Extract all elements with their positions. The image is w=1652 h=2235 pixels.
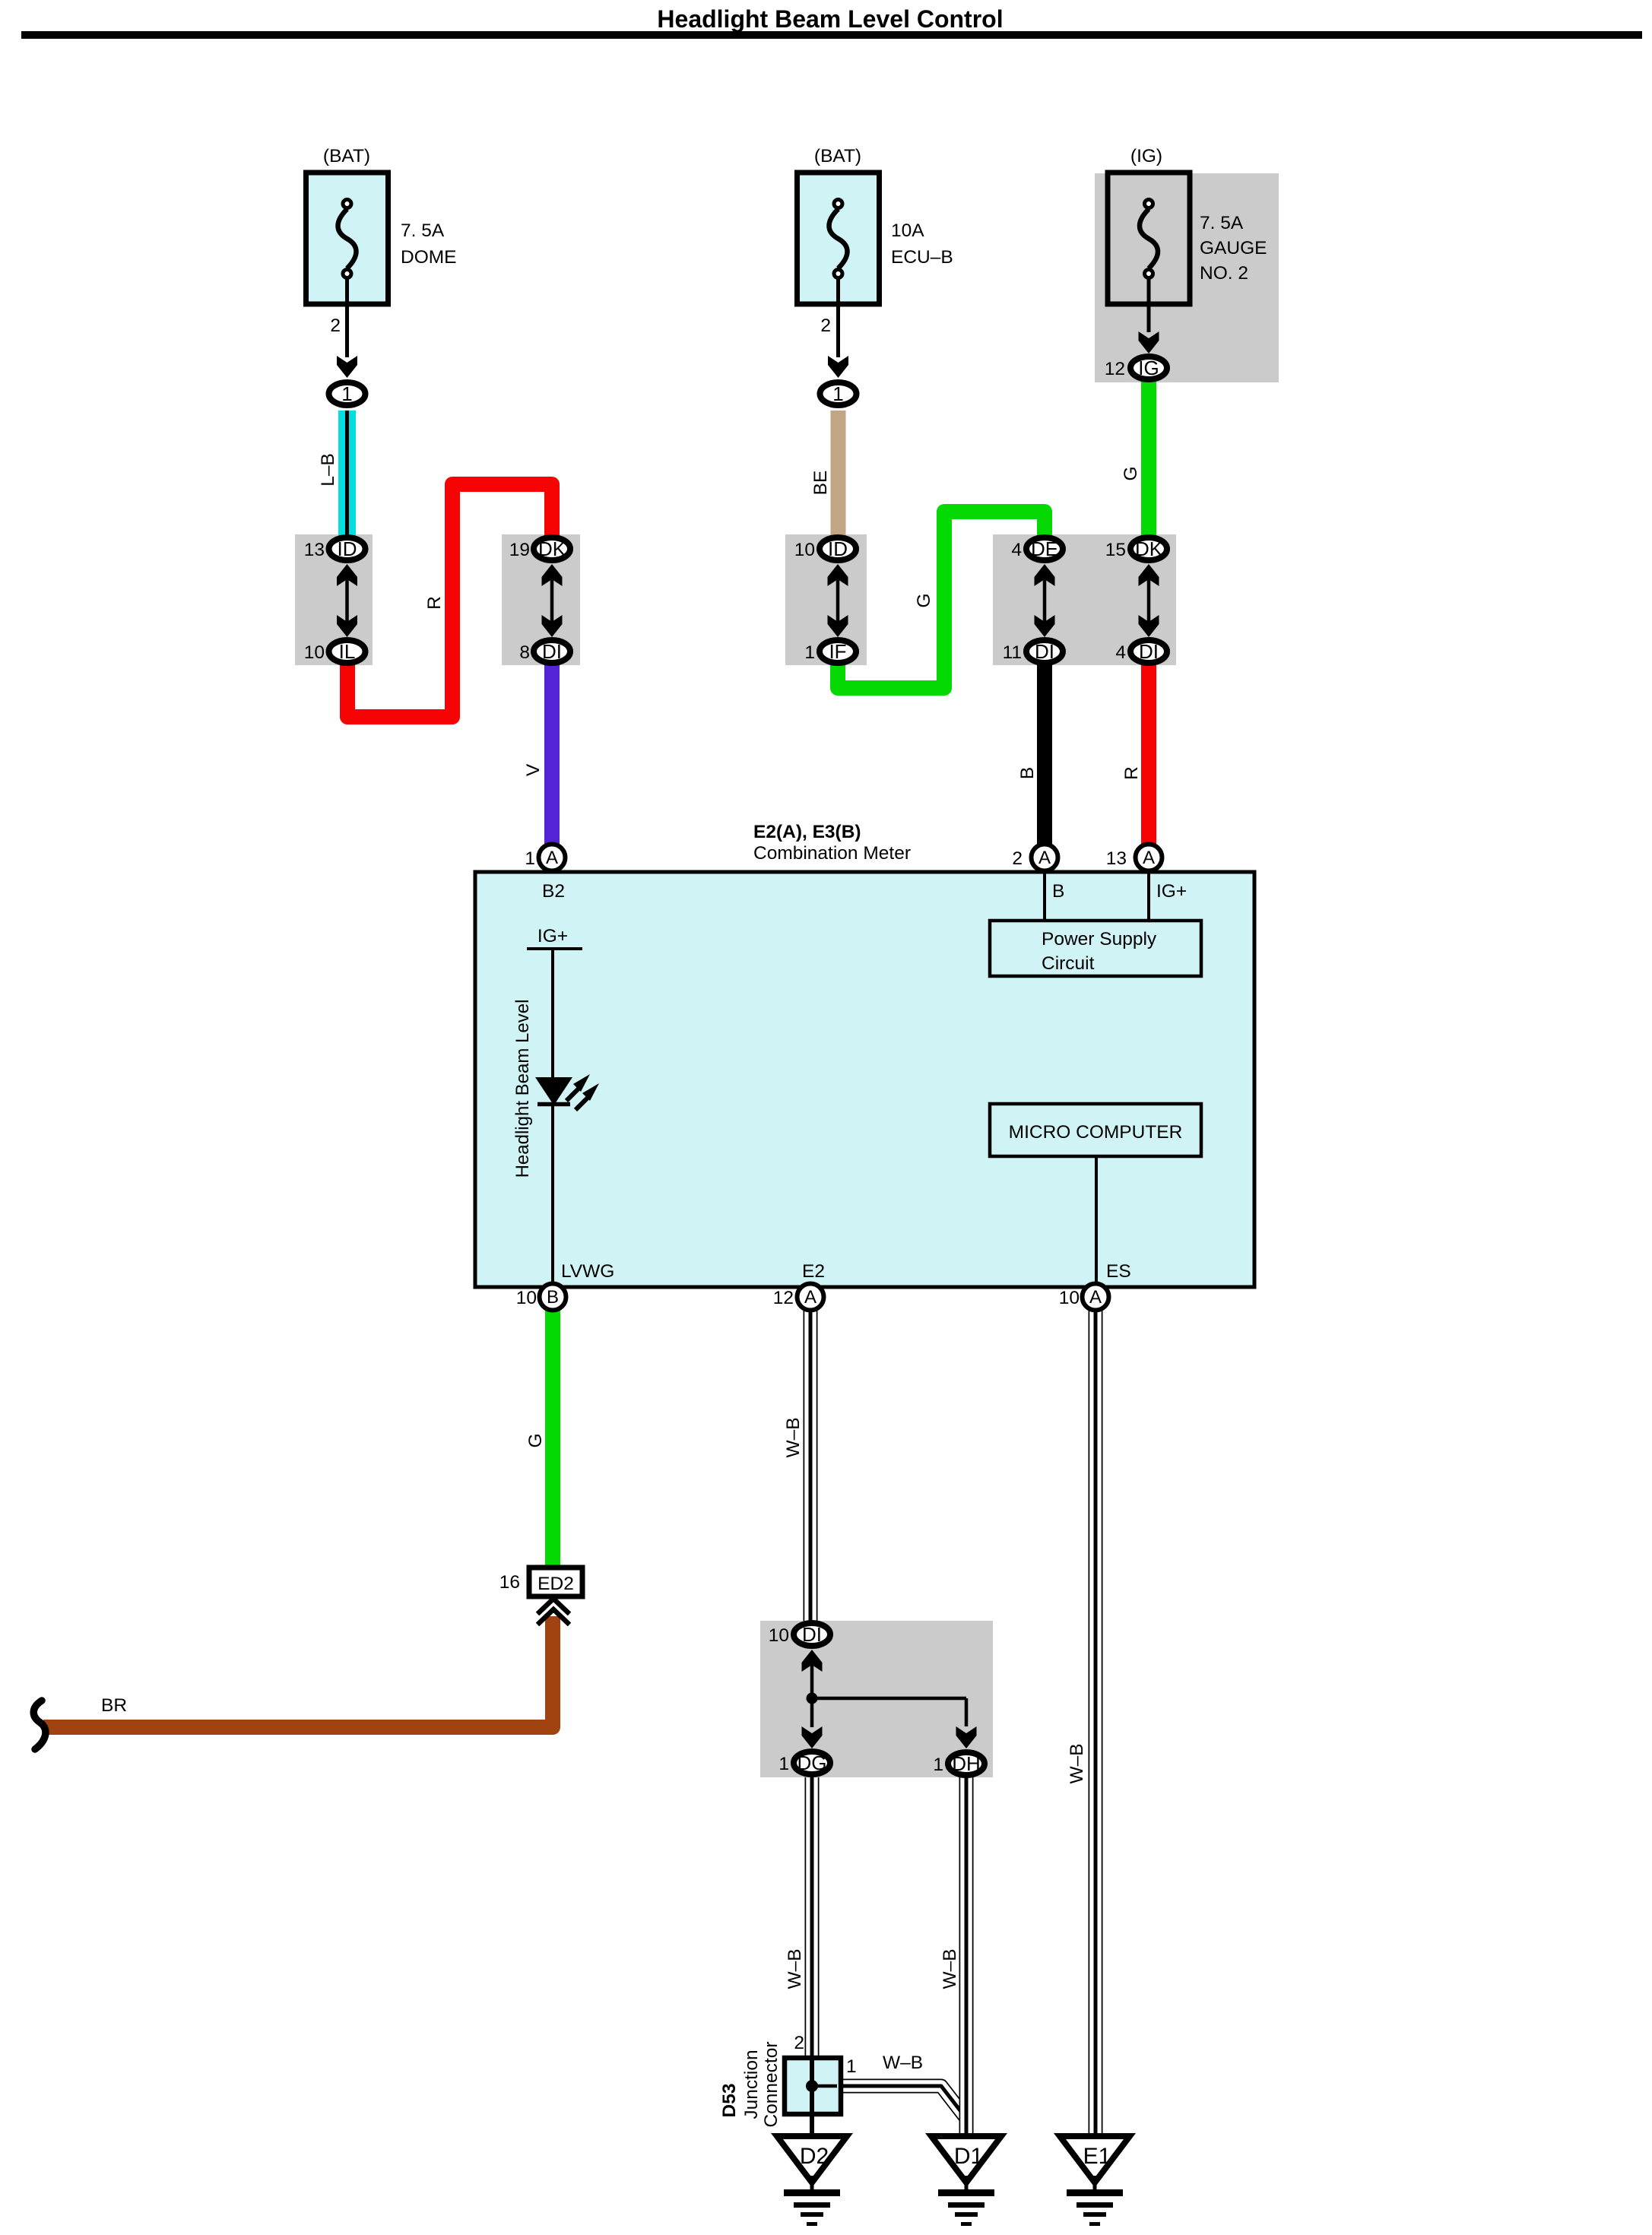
svg-text:1: 1 bbox=[525, 848, 535, 869]
svg-text:(BAT): (BAT) bbox=[814, 146, 861, 166]
svg-text:A: A bbox=[1143, 848, 1155, 868]
svg-text:A: A bbox=[1089, 1287, 1102, 1308]
svg-text:4: 4 bbox=[1011, 540, 1022, 560]
svg-text:R: R bbox=[1121, 766, 1142, 780]
svg-text:7. 5A: 7. 5A bbox=[1200, 213, 1244, 233]
svg-text:IF: IF bbox=[829, 640, 846, 663]
svg-text:D1: D1 bbox=[954, 2144, 983, 2169]
svg-text:10: 10 bbox=[1059, 1288, 1080, 1308]
svg-text:IG+: IG+ bbox=[1156, 881, 1187, 902]
svg-text:G: G bbox=[1121, 466, 1141, 480]
svg-text:B: B bbox=[1017, 767, 1038, 779]
svg-text:W–B: W–B bbox=[883, 2053, 923, 2073]
svg-text:DI: DI bbox=[1035, 640, 1054, 663]
svg-text:DG: DG bbox=[797, 1752, 827, 1774]
svg-text:A: A bbox=[1038, 848, 1051, 868]
svg-text:16: 16 bbox=[499, 1572, 520, 1593]
svg-text:ID: ID bbox=[338, 537, 357, 560]
svg-text:D53: D53 bbox=[719, 2084, 740, 2118]
svg-text:Connector: Connector bbox=[761, 2041, 782, 2127]
svg-text:2: 2 bbox=[820, 315, 831, 336]
svg-text:IG: IG bbox=[1138, 357, 1159, 379]
svg-text:DI: DI bbox=[542, 640, 562, 663]
svg-text:12: 12 bbox=[1105, 359, 1125, 379]
svg-text:Headlight Beam Level: Headlight Beam Level bbox=[512, 1000, 533, 1178]
svg-text:MICRO COMPUTER: MICRO COMPUTER bbox=[1009, 1122, 1183, 1143]
svg-text:11: 11 bbox=[1003, 642, 1022, 663]
svg-text:10A: 10A bbox=[891, 220, 924, 241]
svg-text:19: 19 bbox=[509, 540, 530, 560]
svg-text:A: A bbox=[546, 848, 558, 868]
svg-text:Headlight Beam Level Control: Headlight Beam Level Control bbox=[657, 5, 1003, 33]
svg-text:IG+: IG+ bbox=[537, 926, 568, 946]
svg-text:ECU–B: ECU–B bbox=[891, 247, 953, 268]
svg-text:E1: E1 bbox=[1083, 2144, 1111, 2169]
svg-text:Junction: Junction bbox=[741, 2050, 762, 2119]
svg-text:DK: DK bbox=[1135, 537, 1163, 560]
svg-text:B: B bbox=[1052, 881, 1064, 902]
svg-text:10: 10 bbox=[516, 1288, 537, 1308]
svg-text:2: 2 bbox=[330, 315, 341, 336]
svg-text:Combination Meter: Combination Meter bbox=[753, 843, 911, 864]
svg-text:B: B bbox=[547, 1287, 559, 1308]
svg-text:10: 10 bbox=[304, 642, 325, 663]
svg-text:DH: DH bbox=[952, 1752, 981, 1775]
svg-text:(BAT): (BAT) bbox=[323, 146, 370, 166]
svg-text:2: 2 bbox=[794, 2033, 804, 2053]
svg-text:BR: BR bbox=[101, 1695, 127, 1716]
svg-text:1: 1 bbox=[846, 2056, 857, 2077]
svg-text:7. 5A: 7. 5A bbox=[401, 220, 445, 241]
svg-text:10: 10 bbox=[794, 540, 815, 560]
svg-text:DOME: DOME bbox=[401, 247, 457, 268]
svg-text:1: 1 bbox=[341, 382, 352, 405]
svg-text:LVWG: LVWG bbox=[561, 1261, 614, 1282]
svg-text:Circuit: Circuit bbox=[1042, 953, 1095, 974]
svg-text:B2: B2 bbox=[542, 881, 565, 902]
svg-text:1: 1 bbox=[778, 1754, 789, 1774]
svg-text:12: 12 bbox=[773, 1288, 794, 1308]
svg-text:W–B: W–B bbox=[1067, 1743, 1087, 1783]
svg-text:ID: ID bbox=[828, 537, 848, 560]
svg-text:ES: ES bbox=[1106, 1261, 1131, 1282]
svg-text:13: 13 bbox=[304, 540, 325, 560]
svg-text:L–B: L–B bbox=[318, 453, 338, 487]
svg-text:R: R bbox=[424, 596, 445, 610]
svg-text:E2(A), E3(B): E2(A), E3(B) bbox=[753, 822, 861, 842]
svg-text:W–B: W–B bbox=[783, 1417, 804, 1457]
svg-text:NO. 2: NO. 2 bbox=[1200, 263, 1248, 284]
svg-text:DI: DI bbox=[802, 1623, 822, 1646]
svg-text:4: 4 bbox=[1115, 642, 1126, 663]
svg-text:DE: DE bbox=[1031, 537, 1058, 560]
svg-text:V: V bbox=[523, 763, 544, 776]
svg-text:E2: E2 bbox=[802, 1261, 825, 1282]
svg-text:GAUGE: GAUGE bbox=[1200, 238, 1267, 258]
svg-text:G: G bbox=[525, 1433, 546, 1447]
svg-text:G: G bbox=[914, 593, 934, 607]
svg-text:8: 8 bbox=[519, 642, 530, 663]
svg-text:W–B: W–B bbox=[940, 1948, 960, 1989]
svg-text:BE: BE bbox=[810, 471, 831, 496]
svg-text:1: 1 bbox=[804, 642, 815, 663]
svg-text:13: 13 bbox=[1106, 848, 1127, 869]
svg-text:DI: DI bbox=[1139, 640, 1159, 663]
svg-text:2: 2 bbox=[1012, 848, 1023, 869]
svg-text:10: 10 bbox=[769, 1625, 789, 1646]
svg-text:DK: DK bbox=[538, 537, 566, 560]
svg-text:ED2: ED2 bbox=[537, 1574, 574, 1594]
svg-text:(IG): (IG) bbox=[1130, 146, 1162, 166]
svg-text:15: 15 bbox=[1105, 540, 1126, 560]
svg-text:1: 1 bbox=[933, 1755, 943, 1775]
svg-text:D2: D2 bbox=[800, 2144, 829, 2169]
svg-text:1: 1 bbox=[832, 382, 843, 405]
svg-text:A: A bbox=[804, 1287, 816, 1308]
svg-text:IL: IL bbox=[339, 640, 356, 663]
svg-text:W–B: W–B bbox=[785, 1948, 805, 1989]
svg-text:Power Supply: Power Supply bbox=[1042, 929, 1157, 949]
